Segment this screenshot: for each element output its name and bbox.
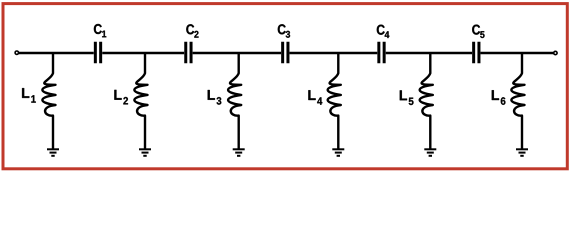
ground (L5) xyxy=(424,149,436,156)
inductor L5 xyxy=(400,53,433,149)
terminal right xyxy=(554,51,557,54)
inductor L3 xyxy=(208,53,241,149)
ground (L3) xyxy=(233,149,245,156)
wire main horizontal xyxy=(18,52,553,55)
ground (L4) xyxy=(332,149,344,156)
inductor L1 xyxy=(22,53,55,149)
capacitor C1 xyxy=(94,24,106,63)
capacitor C5 xyxy=(472,25,484,64)
ground (L1) xyxy=(47,149,59,156)
capacitor C4 xyxy=(377,25,390,64)
capacitor C2 xyxy=(186,24,199,63)
terminal left xyxy=(15,51,18,54)
inductor L4 xyxy=(308,53,340,149)
ground (L2) xyxy=(139,149,151,156)
ground (L6) xyxy=(516,149,528,156)
inductor L6 xyxy=(492,53,525,149)
frame border xyxy=(3,4,567,169)
capacitor C3 xyxy=(278,24,290,63)
inductor L2 xyxy=(114,53,147,149)
